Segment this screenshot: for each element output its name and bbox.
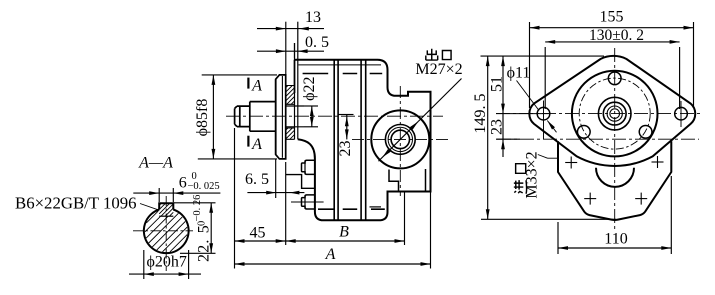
A-A shaft circle (144, 210, 189, 254)
svg-text:ϕ85f8: ϕ85f8 (194, 99, 211, 137)
svg-text:M27×2: M27×2 (415, 61, 462, 78)
svg-text:45: 45 (250, 225, 266, 242)
label inlet CJK characters (rotated) (514, 164, 527, 194)
svg-text:51: 51 (489, 76, 506, 92)
svg-text:ϕ22: ϕ22 (301, 76, 318, 100)
front view: shaft boss concentric circles (598, 97, 631, 130)
main view: gear bore top lines (303, 73, 383, 75)
svg-text:6: 6 (179, 175, 187, 192)
front view: bolt circle (dash-dot) (579, 78, 650, 149)
dimension A (430, 193, 432, 269)
front view: lower semicircular boss (596, 168, 634, 187)
main view: mounting flange phi85 (276, 75, 286, 159)
dimension 22.5 with tolerance (173, 202, 215, 204)
main view: drive shaft stub (235, 102, 250, 132)
svg-text:155: 155 (600, 9, 624, 26)
svg-text:6. 5: 6. 5 (245, 171, 269, 188)
dimension 13 (285, 22, 287, 75)
svg-text:ϕ11: ϕ11 (507, 65, 531, 82)
svg-text:−0. 26: −0. 26 (192, 195, 203, 222)
dimension 51 (502, 56, 504, 139)
front view: bolt hole lower-left (577, 125, 590, 138)
front view: centerline solid ext segment (496, 113, 549, 115)
main view: gear bore bottom lines (318, 208, 385, 210)
main view: body front face upper lines (294, 43, 296, 139)
main view: outlet port centerlines (352, 138, 448, 140)
svg-text:A: A (251, 78, 262, 95)
A-A circle hatching (145, 211, 187, 252)
svg-text:149. 5: 149. 5 (472, 94, 489, 134)
front view: mounting hole phi11 left (537, 107, 550, 120)
dimension phi20h7 (143, 250, 145, 279)
dimension 149.5 (481, 55, 605, 57)
svg-text:22. 5: 22. 5 (196, 224, 213, 262)
label outlet CJK characters (426, 49, 438, 60)
front view: bolt hole top (608, 72, 621, 85)
front view: bolt hole lower-right (639, 125, 652, 138)
svg-text:B6×22GB/T 1096: B6×22GB/T 1096 (15, 194, 137, 213)
main view: shaft centerline (226, 115, 443, 117)
svg-text:A—A: A—A (138, 155, 173, 172)
svg-text:A: A (251, 136, 262, 153)
front view: mounting hole vertical center marks (543, 101, 545, 140)
main view: body outline (295, 60, 431, 221)
dimension 130 +-0.2 (544, 47, 546, 109)
dimension 110 (557, 222, 559, 254)
front view: mounting hole phi11 right (675, 107, 688, 120)
dimension 23 main view (338, 114, 354, 116)
main view: plug boss upper (302, 160, 315, 174)
dimension B (404, 193, 406, 246)
main view: front face pocket between bosses (286, 175, 315, 189)
front view: horizontal centerline (496, 113, 701, 115)
front view: lower pump body outline (558, 141, 671, 220)
svg-text:B: B (339, 224, 349, 241)
dimension phi85f8 (202, 74, 277, 76)
dimension 6.5 (275, 159, 277, 198)
svg-text:23: 23 (489, 119, 506, 135)
main view: shaft collar (250, 102, 276, 132)
svg-text:110: 110 (604, 231, 627, 248)
main view: rear small tick (370, 206, 382, 208)
main view: seal housing hatched blocks (286, 86, 295, 140)
main view: port block inner line and step (425, 169, 427, 192)
A-A centerlines (133, 230, 193, 232)
dimension 6 with tolerance (158, 188, 160, 202)
label outlet M27x2 with leader (418, 79, 461, 122)
front view: screw hole center marks (565, 162, 577, 164)
front view: flange plate outline (529, 56, 695, 166)
datum mark A lower (247, 136, 249, 147)
dimension 0.5 (294, 43, 296, 58)
front view: vertical centerline (614, 48, 616, 231)
svg-text:130±0. 2: 130±0. 2 (589, 27, 644, 44)
svg-text:−0. 025: −0. 025 (188, 181, 220, 192)
svg-text:0. 5: 0. 5 (305, 34, 329, 51)
dimension 23 front view (496, 138, 520, 140)
datum mark A upper (247, 78, 249, 89)
front view: big front cover circle (572, 71, 658, 157)
A-A key and keyway (159, 203, 173, 209)
main view: top chamfer line (299, 64, 382, 66)
svg-text:23: 23 (337, 141, 354, 157)
main view: section joint lines (333, 60, 335, 221)
svg-text:13: 13 (305, 9, 321, 26)
svg-text:A: A (325, 246, 336, 263)
dimension phi22 (304, 105, 318, 107)
dimension 155 (529, 22, 531, 108)
main view: outlet port boss circles (371, 110, 429, 168)
main view: shaft journal phi22 lines (286, 105, 305, 107)
front view: inlet port centerline (497, 138, 699, 140)
dimension 45 (234, 128, 236, 269)
main view: plug boss lower (302, 195, 315, 209)
svg-text:ϕ20h7: ϕ20h7 (146, 253, 186, 270)
